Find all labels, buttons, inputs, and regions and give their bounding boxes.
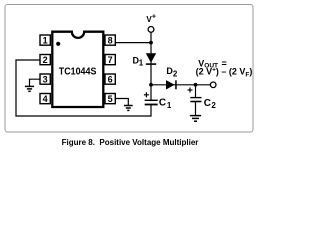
node V+ junction: [149, 41, 153, 45]
V+ terminal circle: [148, 27, 154, 33]
ground at pin 3: [25, 86, 34, 91]
wire C2 stem upper: [195, 85, 197, 97]
pin 7: [105, 55, 115, 66]
label (2 V+) - (2 VF): [196, 66, 253, 78]
svg-text:2: 2: [173, 69, 178, 78]
pin 8: [105, 35, 115, 46]
ground at C2: [190, 116, 201, 122]
svg-text:C: C: [204, 98, 211, 109]
wire pin2 to bottom rail to C1 bottom: [16, 60, 151, 116]
diode D2: [166, 80, 177, 89]
svg-text:7: 7: [108, 55, 113, 65]
C1 plus sign: [144, 92, 149, 97]
label VOUT =: [198, 59, 227, 70]
svg-text:1: 1: [43, 36, 48, 46]
node C2 junction: [194, 83, 198, 87]
C2 plus sign: [188, 88, 193, 93]
svg-text:1: 1: [139, 58, 144, 67]
wire pin5 to ground: [115, 99, 128, 106]
label D1: [133, 55, 144, 67]
capacitor C2 plates: [190, 97, 201, 102]
pin 6: [105, 74, 115, 85]
figure border frame: [5, 5, 253, 133]
label C2: [204, 98, 217, 110]
svg-text:+: +: [152, 12, 157, 21]
wire V+ terminal down through D1 to C1: [150, 32, 152, 100]
svg-text:Figure 8. Positive Voltage Mu: Figure 8. Positive Voltage Multiplier: [62, 138, 199, 147]
svg-text:5: 5: [108, 94, 113, 104]
pin 2: [40, 55, 50, 66]
svg-text:2: 2: [211, 101, 216, 110]
capacitor C1 plates: [145, 100, 158, 106]
svg-text:TC1044S: TC1044S: [59, 67, 97, 78]
svg-text:1: 1: [167, 101, 172, 110]
op-amp U1 TC1044S body: [52, 32, 103, 107]
svg-text:8: 8: [108, 36, 113, 46]
label D2: [166, 66, 178, 79]
diode D1: [146, 53, 156, 65]
svg-text:3: 3: [43, 75, 48, 85]
pin 4: [40, 94, 50, 105]
svg-text:6: 6: [108, 75, 113, 85]
ground at pin 5: [124, 106, 133, 111]
label C1: [159, 98, 172, 111]
wire output rail: [151, 84, 210, 86]
pin 5: [105, 94, 115, 105]
svg-text:4: 4: [43, 94, 48, 104]
wire C2 stem lower: [195, 102, 197, 115]
wire pin3 to ground: [30, 79, 41, 86]
pin 3: [40, 74, 50, 85]
node D1 cathode junction: [149, 83, 153, 87]
pin-1 marker dot: [56, 42, 60, 46]
label V+: [146, 12, 156, 25]
svg-text:2: 2: [43, 55, 48, 65]
svg-text:C: C: [159, 98, 166, 109]
pin 1: [40, 35, 50, 46]
wire pin8 to V+ node: [115, 42, 151, 44]
VOUT terminal circle: [210, 82, 216, 88]
